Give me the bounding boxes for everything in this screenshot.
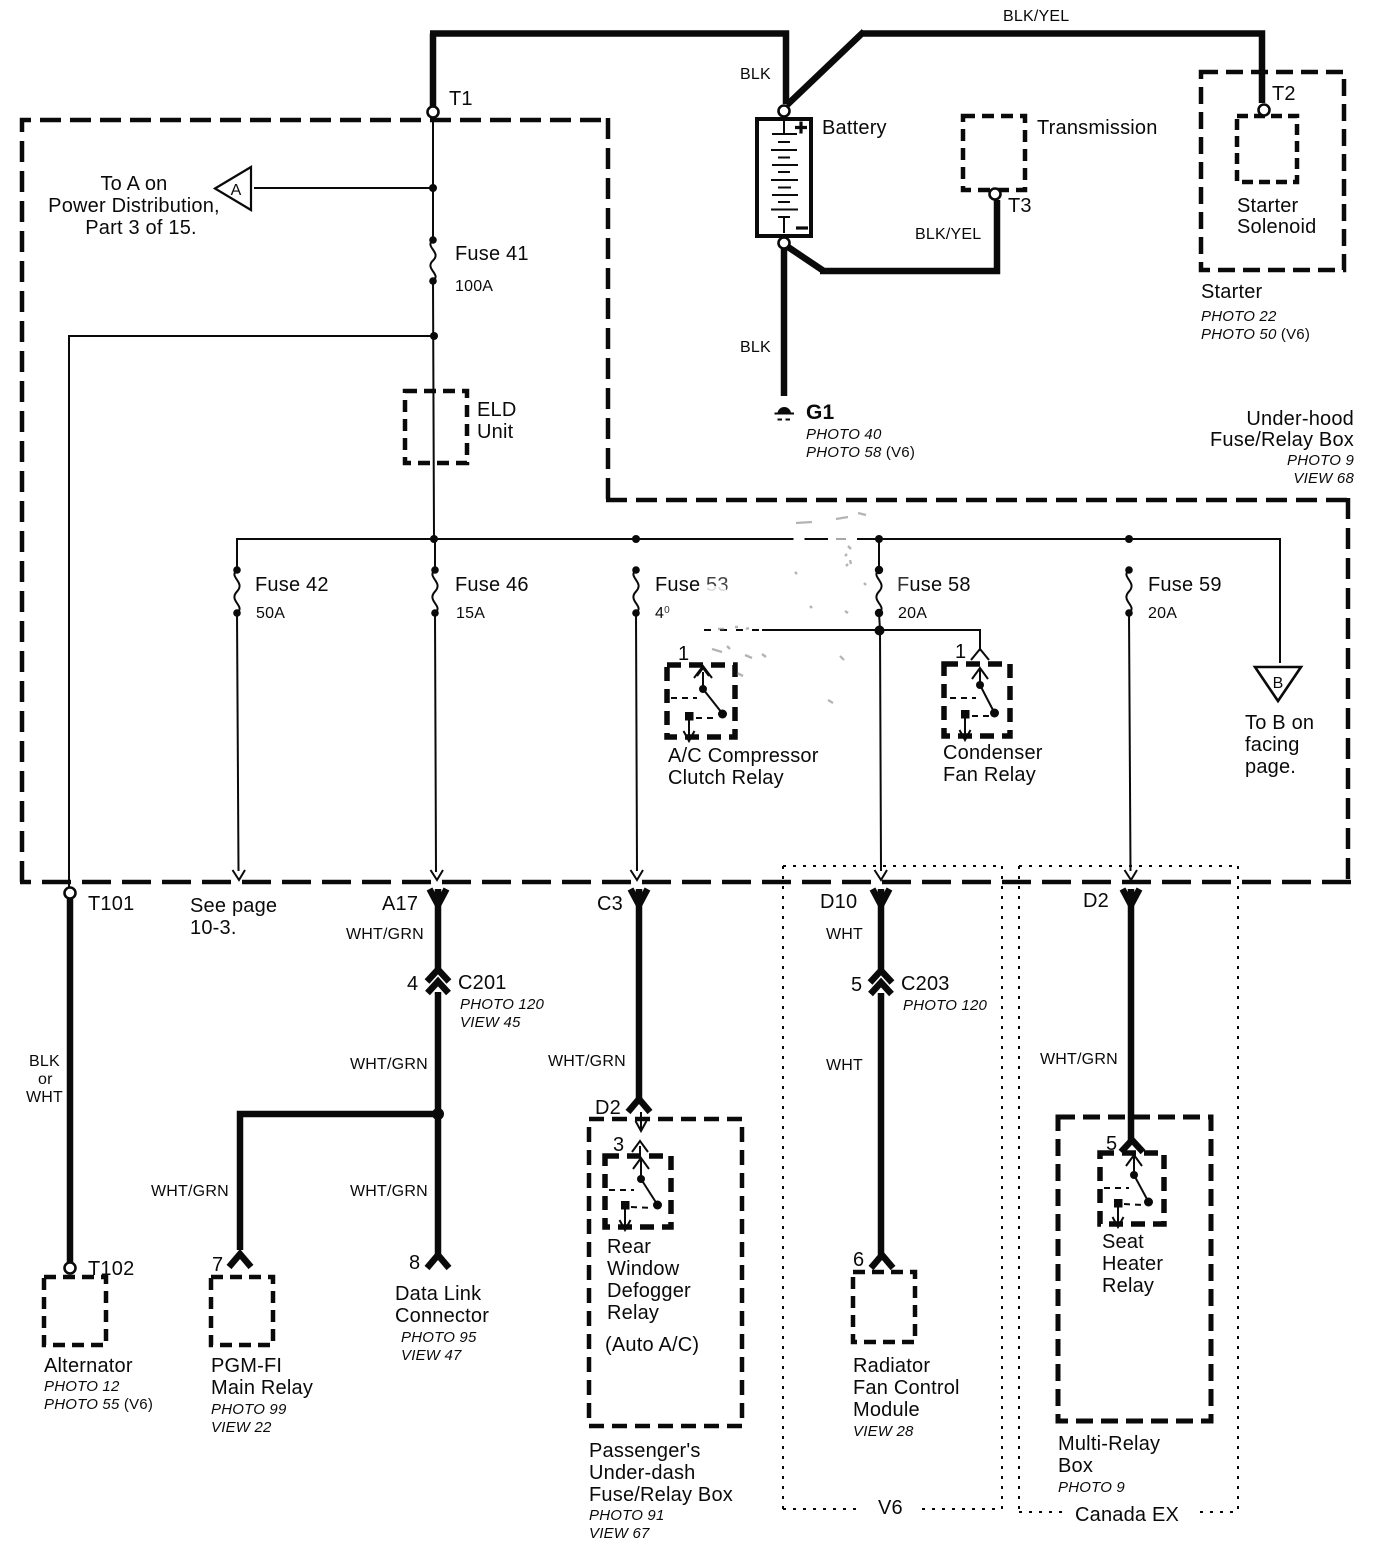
svg-text:PHOTO 99: PHOTO 99 bbox=[211, 1401, 287, 1418]
svg-text:WHT/GRN: WHT/GRN bbox=[350, 1056, 428, 1073]
node bus junction fuse 53 bbox=[632, 535, 640, 543]
svg-text:1: 1 bbox=[678, 643, 689, 665]
wire battery negative to T3 (BLK/YEL) bbox=[788, 200, 997, 271]
svg-text:B: B bbox=[1273, 675, 1284, 692]
wire left branch to T101 bbox=[69, 336, 434, 889]
battery BT1 bbox=[757, 119, 811, 236]
svg-text:PHOTO 22: PHOTO 22 bbox=[1201, 308, 1277, 325]
svg-text:PHOTO 58 (V6): PHOTO 58 (V6) bbox=[806, 444, 915, 461]
svg-text:15A: 15A bbox=[456, 605, 485, 622]
svg-text:100A: 100A bbox=[455, 278, 493, 295]
svg-text:Fuse 46: Fuse 46 bbox=[455, 574, 529, 596]
svg-text:Fan Relay: Fan Relay bbox=[943, 764, 1036, 786]
svg-text:ELD: ELD bbox=[477, 399, 517, 421]
svg-text:Battery: Battery bbox=[822, 117, 887, 139]
svg-text:Fuse 41: Fuse 41 bbox=[455, 243, 529, 265]
arrow into border (D10) bbox=[875, 870, 888, 880]
svg-text:Radiator: Radiator bbox=[853, 1355, 930, 1377]
node T102 bbox=[65, 1263, 76, 1274]
connector C203 pin 5 bbox=[870, 971, 892, 995]
svg-text:A/C Compressor: A/C Compressor bbox=[668, 745, 819, 767]
arrow through box top bbox=[636, 1112, 647, 1131]
battery - terminal node bbox=[779, 238, 790, 249]
under-hood fuse/relay box dashed outline bbox=[22, 118, 1348, 884]
svg-text:facing: facing bbox=[1245, 734, 1300, 756]
svg-text:Starter: Starter bbox=[1201, 281, 1263, 303]
svg-text:8: 8 bbox=[409, 1252, 420, 1274]
svg-text:Passenger's: Passenger's bbox=[589, 1440, 701, 1462]
svg-text:(Auto A/C): (Auto A/C) bbox=[605, 1334, 699, 1356]
svg-text:Clutch Relay: Clutch Relay bbox=[668, 767, 784, 789]
pin 8 connector (data link) bbox=[427, 1255, 449, 1268]
svg-text:1: 1 bbox=[955, 641, 966, 663]
wire relay feed line bbox=[704, 629, 762, 631]
svg-text:Unit: Unit bbox=[477, 421, 514, 443]
wire to A arrow bbox=[254, 187, 431, 189]
wire fuse bus bbox=[237, 539, 1280, 663]
svg-text:Data Link: Data Link bbox=[395, 1283, 482, 1305]
svg-text:PHOTO 50 (V6): PHOTO 50 (V6) bbox=[1201, 326, 1310, 343]
svg-text:VIEW 68: VIEW 68 bbox=[1293, 470, 1354, 487]
svg-text:4: 4 bbox=[407, 973, 418, 995]
wire main vertical from T1 through fuse 41, ELD, fuse 46 bbox=[433, 117, 436, 872]
node junction left branch bbox=[430, 332, 438, 340]
wire fuse 53 output to C3 bbox=[636, 613, 637, 871]
svg-text:VIEW 45: VIEW 45 bbox=[460, 1014, 521, 1031]
svg-text:PHOTO 120: PHOTO 120 bbox=[903, 997, 988, 1014]
seat heater relay bbox=[1100, 1153, 1164, 1227]
V6 dotted box bbox=[783, 866, 1002, 1509]
svg-text:Fan Control: Fan Control bbox=[853, 1377, 960, 1399]
fuse 59 20A bbox=[1125, 566, 1133, 617]
fuse 53 40A bbox=[632, 566, 640, 617]
svg-text:PHOTO 91: PHOTO 91 bbox=[589, 1507, 665, 1524]
svg-text:Multi-Relay: Multi-Relay bbox=[1058, 1433, 1160, 1455]
wire A17 branch (WHT/GRN) bbox=[435, 889, 442, 1255]
svg-text:D2: D2 bbox=[1083, 890, 1109, 912]
svg-text:Main Relay: Main Relay bbox=[211, 1377, 313, 1399]
svg-text:WHT/GRN: WHT/GRN bbox=[151, 1183, 229, 1200]
svg-text:Alternator: Alternator bbox=[44, 1355, 133, 1377]
wire fuse 58 output to D10 bbox=[879, 613, 881, 871]
wire battery negative to G1 (BLK) bbox=[781, 249, 788, 396]
svg-text:T102: T102 bbox=[88, 1258, 134, 1280]
svg-text:Fuse 58: Fuse 58 bbox=[897, 574, 971, 596]
svg-text:C203: C203 bbox=[901, 973, 950, 995]
svg-text:PHOTO 40: PHOTO 40 bbox=[806, 426, 882, 443]
node T1 bbox=[428, 107, 439, 118]
wire fuse 42 output bbox=[237, 613, 239, 871]
wire D10 branch (WHT) bbox=[878, 889, 885, 1255]
svg-text:T2: T2 bbox=[1272, 83, 1296, 105]
wire fuse 59 output to D2 bbox=[1129, 613, 1131, 871]
svg-text:Fuse 42: Fuse 42 bbox=[255, 574, 329, 596]
svg-text:PGM-FI: PGM-FI bbox=[211, 1355, 282, 1377]
svg-text:VIEW 47: VIEW 47 bbox=[401, 1347, 462, 1364]
connector C201 pin 4 bbox=[427, 970, 449, 994]
svg-text:6: 6 bbox=[853, 1249, 864, 1271]
arrow into border (C3) bbox=[631, 870, 644, 880]
svg-text:Heater: Heater bbox=[1102, 1253, 1163, 1275]
wire to PGM-FI main relay (WHT/GRN) bbox=[240, 1114, 438, 1250]
node T2 bbox=[1259, 105, 1270, 116]
svg-text:T101: T101 bbox=[88, 893, 134, 915]
node bus junction at main line bbox=[430, 535, 438, 543]
svg-text:VIEW 22: VIEW 22 bbox=[211, 1419, 272, 1436]
pin 5 connector bbox=[1121, 1140, 1143, 1152]
node junction To A bbox=[429, 184, 437, 192]
svg-text:V6: V6 bbox=[878, 1497, 903, 1519]
svg-text:50A: 50A bbox=[256, 605, 285, 622]
pin 6 connector bbox=[871, 1255, 893, 1268]
svg-text:WHT: WHT bbox=[26, 1089, 63, 1106]
svg-text:BLK/YEL: BLK/YEL bbox=[915, 226, 981, 243]
svg-text:Relay: Relay bbox=[1102, 1275, 1154, 1297]
PGM-FI main relay box bbox=[211, 1277, 273, 1345]
svg-text:BLK: BLK bbox=[740, 339, 771, 356]
svg-text:3: 3 bbox=[613, 1134, 624, 1156]
fuse 58 20A bbox=[875, 539, 883, 617]
svg-text:PHOTO 12: PHOTO 12 bbox=[44, 1378, 120, 1395]
svg-text:Solenoid: Solenoid bbox=[1237, 216, 1316, 238]
fuse 42 50A bbox=[233, 566, 241, 617]
connector arrow B bbox=[1255, 667, 1301, 701]
svg-text:BLK: BLK bbox=[29, 1053, 60, 1070]
svg-text:A: A bbox=[231, 182, 242, 199]
svg-text:or: or bbox=[38, 1071, 53, 1088]
svg-text:PHOTO 120: PHOTO 120 bbox=[460, 996, 545, 1013]
svg-text:WHT/GRN: WHT/GRN bbox=[346, 926, 424, 943]
svg-text:G1: G1 bbox=[806, 401, 835, 424]
svg-text:Condenser: Condenser bbox=[943, 742, 1043, 764]
svg-text:20A: 20A bbox=[898, 605, 927, 622]
ELD unit box bbox=[405, 391, 467, 463]
svg-text:D2: D2 bbox=[595, 1097, 621, 1119]
svg-text:20A: 20A bbox=[1148, 605, 1177, 622]
svg-text:To B on: To B on bbox=[1245, 712, 1314, 734]
svg-text:See page: See page bbox=[190, 895, 277, 917]
wire D2 branch (WHT/GRN) bbox=[1128, 889, 1135, 1142]
node T3 bbox=[990, 189, 1001, 200]
passenger's under-dash fuse/relay box bbox=[589, 1119, 742, 1426]
arrow into border (D2) bbox=[1125, 870, 1138, 880]
svg-text:To A on: To A on bbox=[100, 173, 167, 195]
svg-text:Box: Box bbox=[1058, 1455, 1093, 1477]
svg-text:Power Distribution,: Power Distribution, bbox=[48, 195, 220, 217]
scan smudge artifacts bbox=[712, 513, 866, 703]
svg-text:BLK: BLK bbox=[740, 66, 771, 83]
svg-text:Window: Window bbox=[607, 1258, 680, 1280]
node bus junction fuse 59 bbox=[1125, 535, 1133, 543]
condenser fan relay bbox=[944, 641, 1010, 740]
node bus junction fuse 58 bbox=[875, 535, 883, 543]
alternator box bbox=[44, 1277, 106, 1345]
svg-text:Under-dash: Under-dash bbox=[589, 1462, 696, 1484]
starter outer box bbox=[1201, 72, 1344, 270]
svg-text:BLK/YEL: BLK/YEL bbox=[1003, 8, 1069, 25]
svg-text:Seat: Seat bbox=[1102, 1231, 1144, 1253]
svg-text:T1: T1 bbox=[449, 88, 473, 110]
svg-text:PHOTO 9: PHOTO 9 bbox=[1058, 1479, 1125, 1496]
node junction relay feed bbox=[875, 626, 885, 636]
svg-text:Connector: Connector bbox=[395, 1305, 489, 1327]
svg-text:WHT/GRN: WHT/GRN bbox=[1040, 1051, 1118, 1068]
svg-text:PHOTO 95: PHOTO 95 bbox=[401, 1329, 477, 1346]
svg-text:page.: page. bbox=[1245, 756, 1296, 778]
svg-text:VIEW 28: VIEW 28 bbox=[853, 1423, 914, 1440]
Canada EX dotted box bbox=[1019, 866, 1238, 1512]
svg-text:Module: Module bbox=[853, 1399, 920, 1421]
svg-text:Fuse 59: Fuse 59 bbox=[1148, 574, 1222, 596]
radiator fan control module box bbox=[853, 1272, 915, 1342]
A/C compressor clutch relay bbox=[667, 643, 735, 741]
battery + terminal node bbox=[779, 106, 790, 117]
fuse 46 15A bbox=[431, 566, 439, 617]
svg-text:C3: C3 bbox=[597, 893, 623, 915]
wire C3 branch (WHT/GRN) bbox=[636, 889, 643, 1100]
svg-text:7: 7 bbox=[212, 1254, 223, 1276]
starter solenoid box bbox=[1237, 116, 1297, 182]
svg-text:WHT: WHT bbox=[826, 926, 863, 943]
fuse 41 100A bbox=[429, 236, 437, 285]
svg-text:Under-hood: Under-hood bbox=[1246, 408, 1354, 430]
svg-text:Fuse/Relay Box: Fuse/Relay Box bbox=[589, 1484, 733, 1506]
svg-text:Defogger: Defogger bbox=[607, 1280, 691, 1302]
connector arrow A bbox=[215, 167, 251, 210]
svg-text:T3: T3 bbox=[1008, 195, 1032, 217]
svg-text:10-3.: 10-3. bbox=[190, 917, 237, 939]
node junction data-link / PGM-FI bbox=[432, 1108, 444, 1120]
svg-text:PHOTO 55 (V6): PHOTO 55 (V6) bbox=[44, 1396, 153, 1413]
svg-text:D10: D10 bbox=[820, 891, 857, 913]
svg-text:A17: A17 bbox=[382, 893, 418, 915]
arrow into border (A17) bbox=[431, 870, 444, 880]
rear window defogger relay bbox=[605, 1156, 671, 1230]
svg-text:WHT/GRN: WHT/GRN bbox=[350, 1183, 428, 1200]
transmission box bbox=[963, 116, 1025, 190]
svg-text:C201: C201 bbox=[458, 972, 507, 994]
ground G1 bbox=[775, 407, 795, 419]
wire BLK/YEL battery to starter T2 bbox=[787, 32, 1262, 106]
svg-text:Relay: Relay bbox=[607, 1302, 659, 1324]
arrow into border (fuse 42) bbox=[233, 870, 246, 880]
svg-text:WHT/GRN: WHT/GRN bbox=[548, 1053, 626, 1070]
wire T1 riser (thick from T1 up and right to battery) bbox=[430, 34, 786, 108]
svg-text:Fuse/Relay Box: Fuse/Relay Box bbox=[1210, 429, 1354, 451]
svg-text:Rear: Rear bbox=[607, 1236, 651, 1258]
svg-text:Part 3 of 15.: Part 3 of 15. bbox=[85, 217, 197, 239]
pin 7 connector bbox=[229, 1254, 251, 1267]
connector D2 into under-dash box bbox=[628, 1099, 650, 1112]
svg-text:5: 5 bbox=[851, 974, 862, 996]
wire T101 to T102 (BLK or WHT) bbox=[67, 899, 74, 1262]
svg-text:Starter: Starter bbox=[1237, 195, 1299, 217]
svg-text:VIEW 67: VIEW 67 bbox=[589, 1525, 650, 1542]
svg-text:WHT: WHT bbox=[826, 1057, 863, 1074]
multi-relay box bbox=[1058, 1117, 1211, 1421]
svg-text:PHOTO 9: PHOTO 9 bbox=[1287, 452, 1354, 469]
node T101 bbox=[65, 888, 76, 899]
svg-text:Transmission: Transmission bbox=[1037, 117, 1158, 139]
svg-text:Canada EX: Canada EX bbox=[1075, 1504, 1179, 1526]
